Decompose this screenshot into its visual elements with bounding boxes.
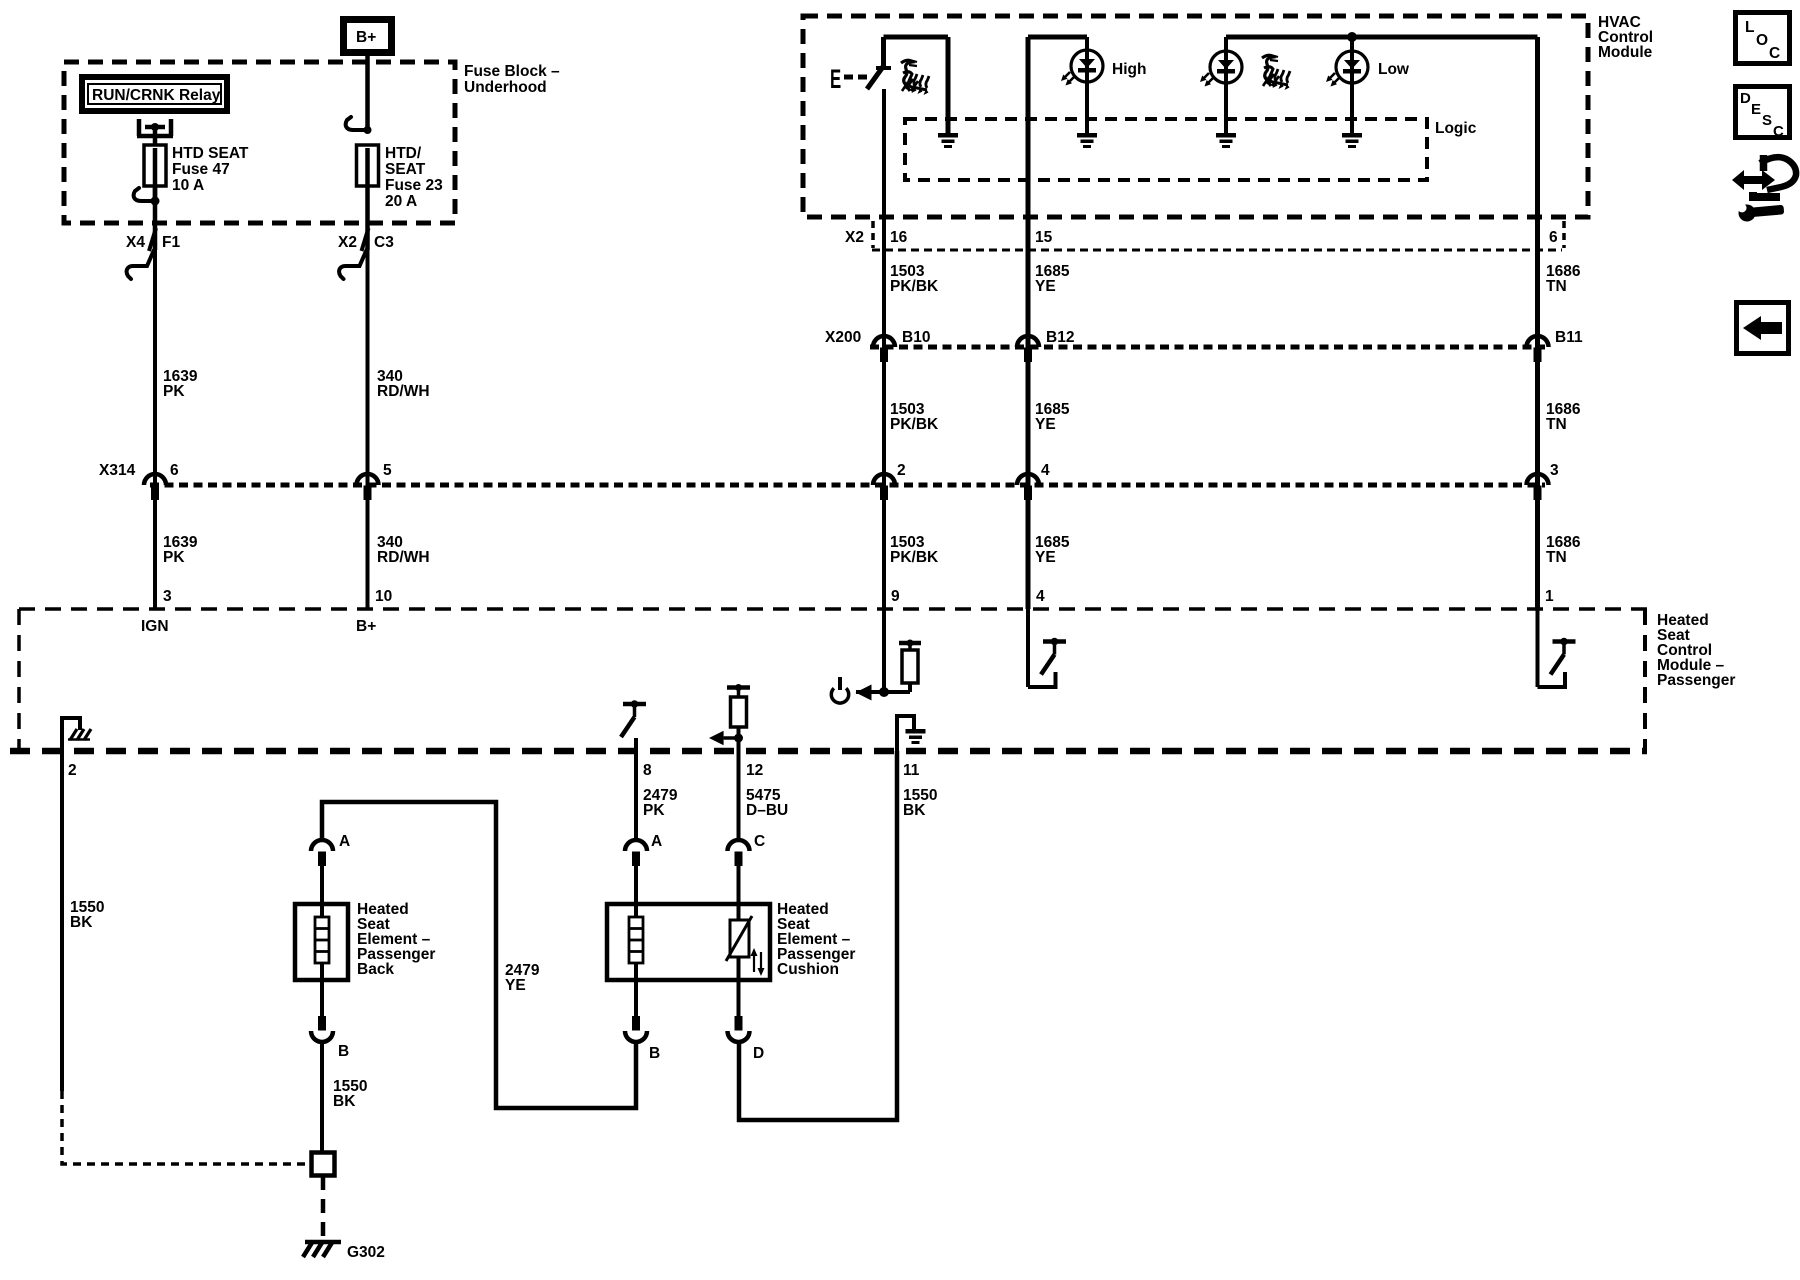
svg-text:TN: TN — [1546, 549, 1567, 566]
svg-text:IGN: IGN — [141, 618, 169, 635]
svg-text:1: 1 — [1545, 588, 1554, 605]
svg-text:YE: YE — [1035, 278, 1056, 295]
svg-text:B+: B+ — [356, 29, 376, 46]
svg-text:Back: Back — [357, 961, 394, 978]
svg-text:C: C — [1769, 45, 1780, 62]
svg-text:10: 10 — [375, 588, 392, 605]
svg-text:2: 2 — [68, 762, 77, 779]
svg-text:Fuse 23: Fuse 23 — [385, 177, 443, 194]
svg-text:A: A — [339, 833, 350, 850]
svg-text:TN: TN — [1546, 278, 1567, 295]
svg-text:8: 8 — [643, 762, 652, 779]
svg-text:X200: X200 — [825, 329, 861, 346]
svg-text:X314: X314 — [99, 462, 136, 479]
svg-text:10 A: 10 A — [172, 177, 204, 194]
svg-text:D–BU: D–BU — [746, 802, 788, 819]
svg-text:BK: BK — [333, 1093, 356, 1110]
svg-text:B11: B11 — [1555, 329, 1583, 346]
svg-text:O: O — [1756, 32, 1768, 49]
svg-text:B12: B12 — [1046, 329, 1074, 346]
svg-text:Passenger: Passenger — [1657, 672, 1735, 689]
svg-text:Fuse Block –: Fuse Block – — [464, 63, 560, 80]
svg-text:D: D — [753, 1045, 764, 1062]
svg-text:YE: YE — [1035, 549, 1056, 566]
svg-text:Underhood: Underhood — [464, 79, 547, 96]
svg-text:3: 3 — [1550, 462, 1559, 479]
svg-text:X4: X4 — [126, 234, 145, 251]
svg-text:E: E — [1751, 101, 1761, 118]
svg-text:TN: TN — [1546, 416, 1567, 433]
svg-text:High: High — [1112, 61, 1146, 78]
svg-text:PK/BK: PK/BK — [890, 278, 939, 295]
svg-text:11: 11 — [903, 762, 920, 779]
svg-text:E: E — [830, 64, 841, 94]
svg-text:BK: BK — [70, 914, 93, 931]
svg-text:G302: G302 — [347, 1244, 385, 1261]
svg-text:4: 4 — [1036, 588, 1045, 605]
svg-text:D: D — [1740, 90, 1751, 107]
svg-text:X2: X2 — [338, 234, 357, 251]
svg-text:Fuse 47: Fuse 47 — [172, 161, 230, 178]
svg-text:PK/BK: PK/BK — [890, 549, 939, 566]
svg-text:6: 6 — [1549, 229, 1558, 246]
svg-text:L: L — [1745, 19, 1754, 36]
svg-text:Low: Low — [1378, 61, 1410, 78]
svg-text:20 A: 20 A — [385, 193, 417, 210]
svg-text:C: C — [754, 833, 765, 850]
svg-text:SEAT: SEAT — [385, 161, 426, 178]
svg-text:Module: Module — [1598, 44, 1653, 61]
svg-text:15: 15 — [1035, 229, 1053, 246]
svg-text:5: 5 — [383, 462, 392, 479]
svg-text:PK: PK — [163, 383, 185, 400]
svg-text:RD/WH: RD/WH — [377, 549, 430, 566]
svg-text:C3: C3 — [374, 234, 394, 251]
svg-text:B: B — [649, 1045, 660, 1062]
svg-text:6: 6 — [170, 462, 179, 479]
svg-text:YE: YE — [505, 977, 526, 994]
svg-text:HTD SEAT: HTD SEAT — [172, 145, 249, 162]
svg-text:YE: YE — [1035, 416, 1056, 433]
svg-text:RUN/CRNK Relay: RUN/CRNK Relay — [92, 87, 221, 104]
svg-text:9: 9 — [891, 588, 900, 605]
svg-text:B: B — [338, 1043, 349, 1060]
svg-text:Cushion: Cushion — [777, 961, 839, 978]
svg-text:S: S — [1762, 112, 1772, 129]
svg-text:RD/WH: RD/WH — [377, 383, 430, 400]
svg-text:PK: PK — [163, 549, 185, 566]
svg-text:HTD/: HTD/ — [385, 145, 422, 162]
svg-text:2: 2 — [897, 462, 906, 479]
svg-text:B+: B+ — [356, 618, 376, 635]
svg-text:12: 12 — [746, 762, 763, 779]
svg-text:X2: X2 — [845, 229, 864, 246]
svg-text:B10: B10 — [902, 329, 930, 346]
svg-text:BK: BK — [903, 802, 926, 819]
svg-text:3: 3 — [163, 588, 172, 605]
svg-text:PK/BK: PK/BK — [890, 416, 939, 433]
svg-text:C: C — [1773, 123, 1784, 140]
svg-text:16: 16 — [890, 229, 908, 246]
svg-text:Logic: Logic — [1435, 120, 1477, 137]
svg-text:PK: PK — [643, 802, 665, 819]
svg-text:F1: F1 — [162, 234, 180, 251]
svg-text:4: 4 — [1041, 462, 1050, 479]
svg-text:A: A — [651, 833, 662, 850]
